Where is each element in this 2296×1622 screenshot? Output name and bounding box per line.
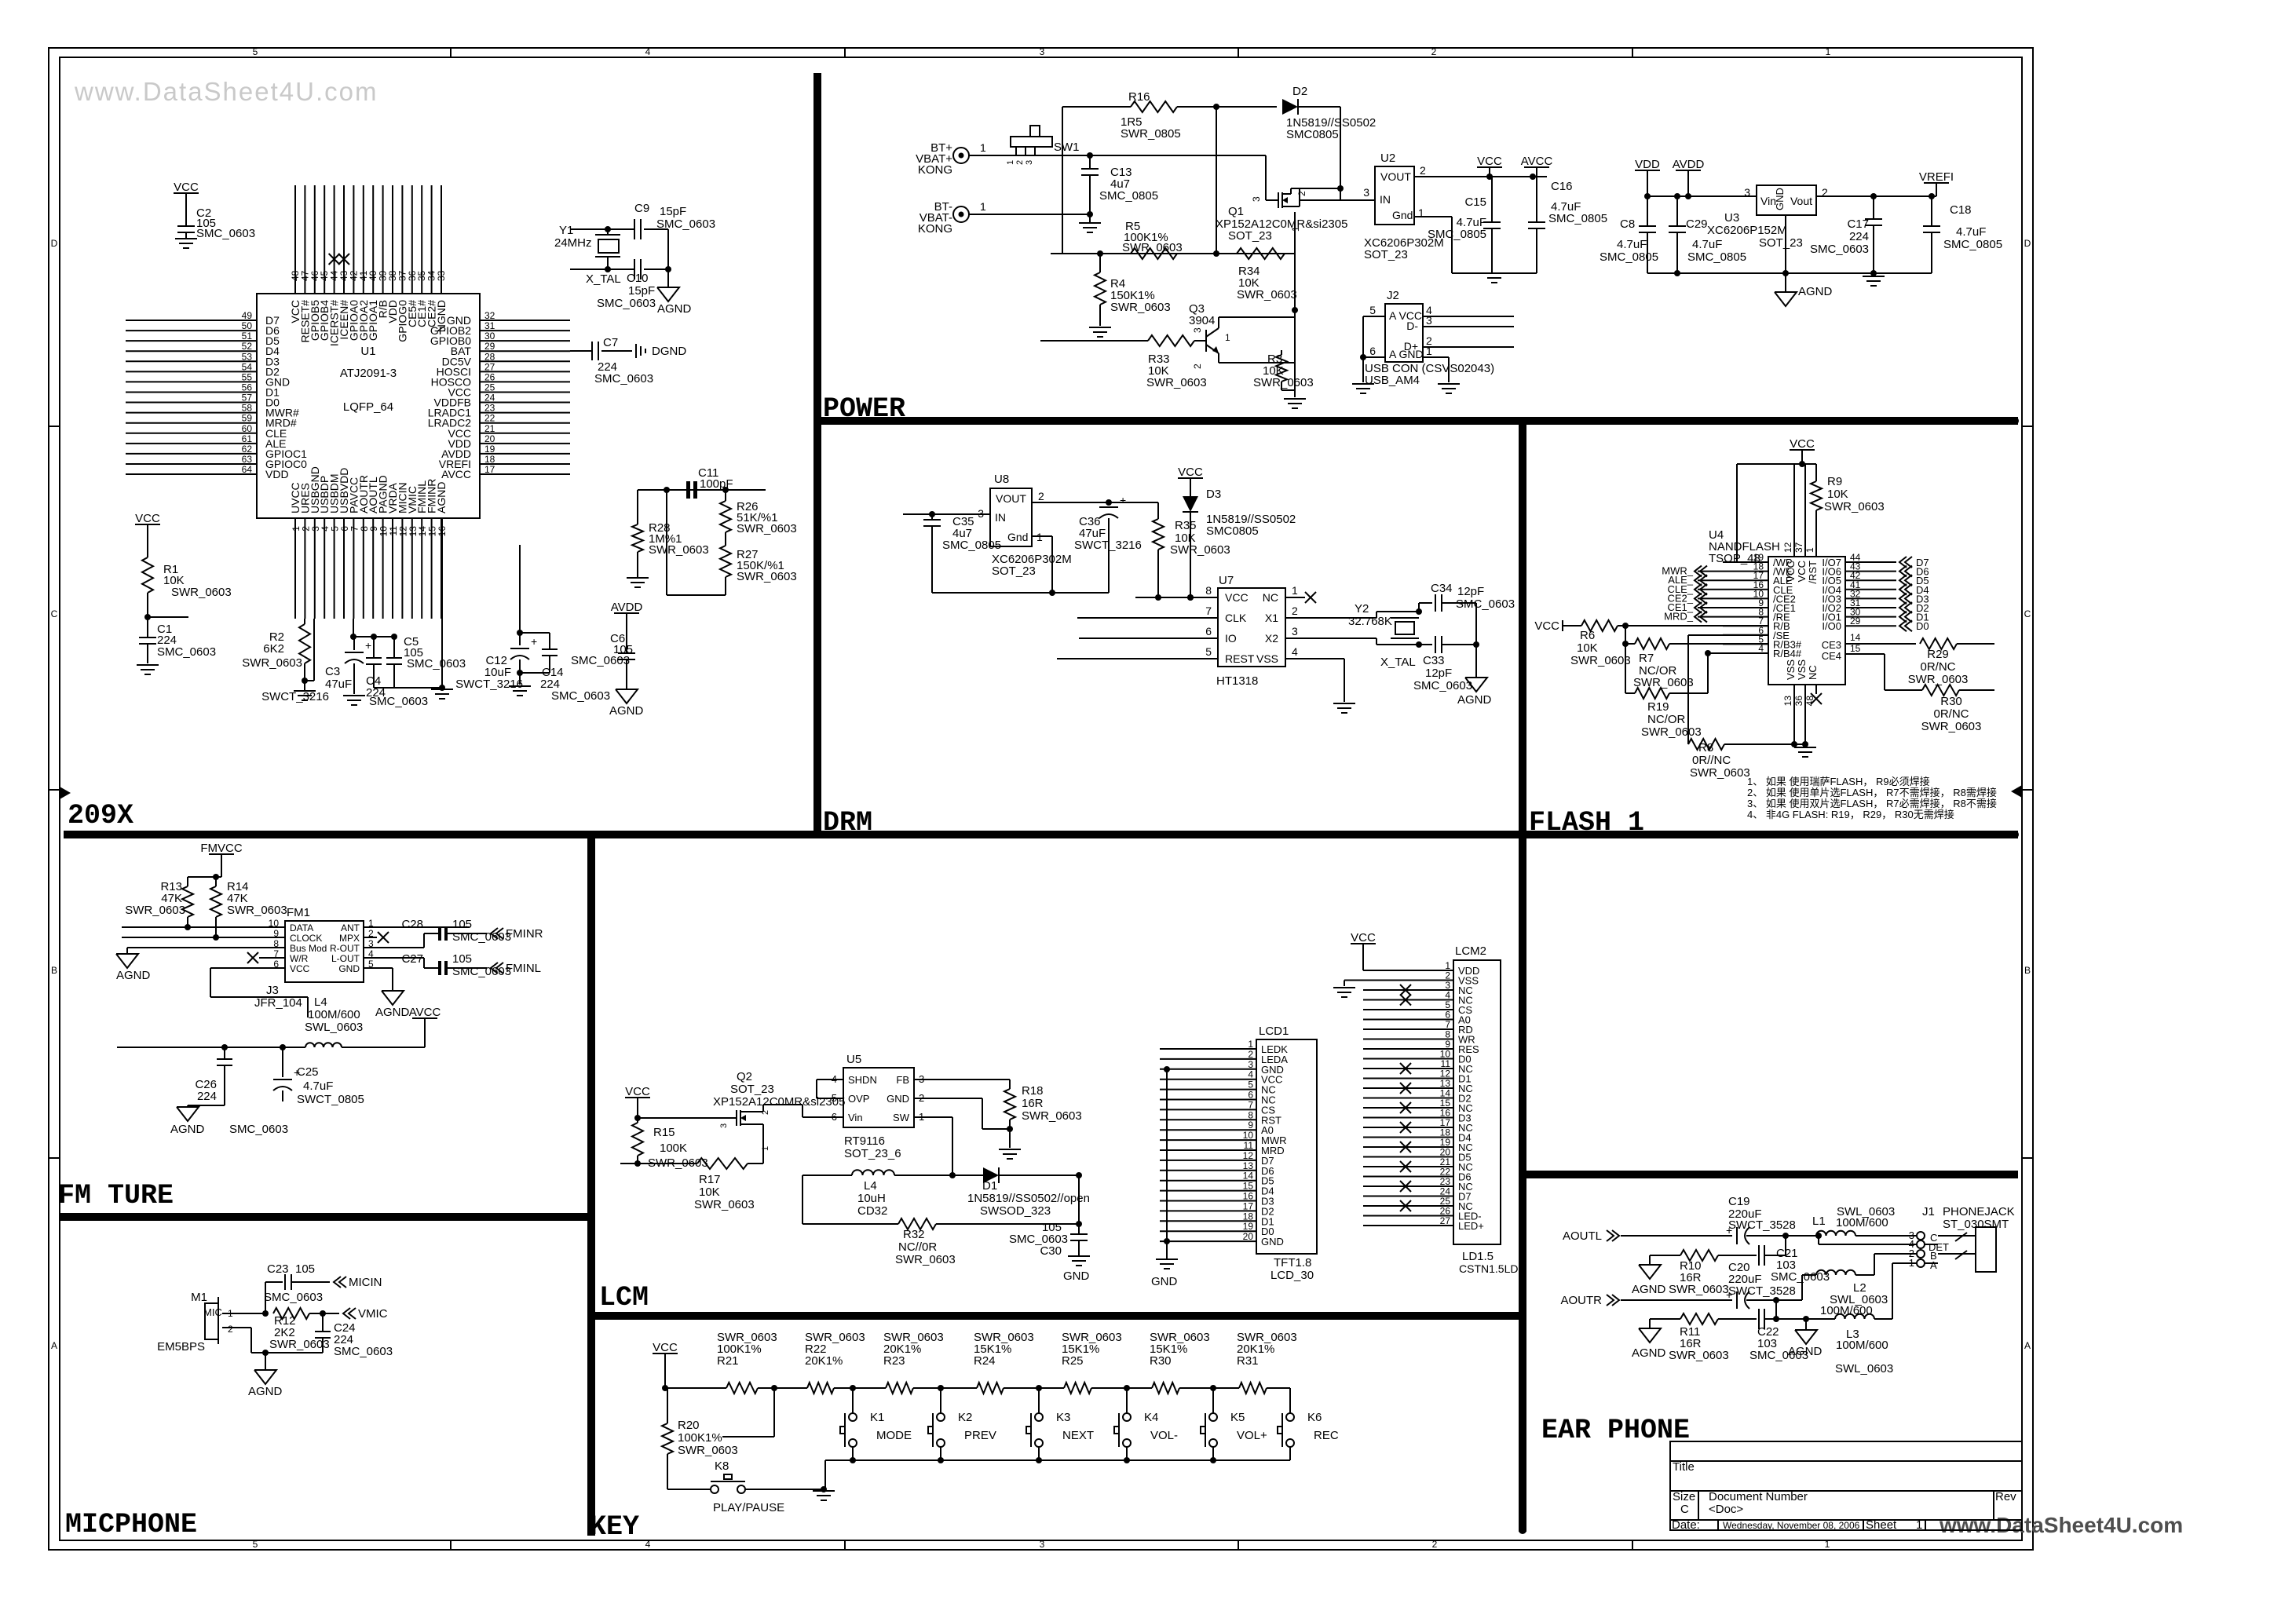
svg-text:AGND: AGND	[609, 704, 644, 718]
svg-text:VOUT: VOUT	[996, 492, 1026, 505]
svg-text:49: 49	[242, 310, 253, 321]
svg-text:105: 105	[452, 952, 472, 966]
svg-text:24MHz: 24MHz	[554, 236, 592, 250]
svg-text:209X: 209X	[68, 800, 133, 831]
wire U3 GND down	[1785, 215, 1786, 273]
title block frame	[1670, 1441, 2022, 1530]
ground under J2 right	[1438, 383, 1460, 385]
wire LCD1 gnd bus	[1166, 1069, 1168, 1259]
capacitor C10 15pF	[634, 259, 635, 279]
svg-text:D1: D1	[982, 1179, 997, 1193]
svg-text:FM1: FM1	[287, 906, 310, 919]
ground AGND FM	[126, 948, 128, 954]
resistor R31 20K1%	[1239, 1383, 1267, 1394]
ground AGND R10	[1649, 1255, 1651, 1265]
svg-text:5: 5	[253, 1539, 258, 1550]
svg-text:2: 2	[1432, 1539, 1438, 1550]
svg-text:U2: U2	[1380, 152, 1395, 165]
svg-text:2: 2	[1296, 191, 1307, 196]
svg-text:4.7uF: 4.7uF	[1617, 238, 1647, 251]
svg-text:D: D	[51, 238, 58, 249]
phone jack B wire	[1874, 1253, 1917, 1255]
svg-text:C10: C10	[627, 272, 649, 285]
resistor R4 150K1%	[1095, 272, 1106, 305]
capacitor C8 4.7uF	[1647, 196, 1648, 226]
capacitor C34 12pF	[1418, 603, 1420, 612]
wire R5 row	[1051, 253, 1295, 254]
resistor R25 15K1%	[1064, 1383, 1091, 1394]
svg-text:R9: R9	[1827, 475, 1842, 488]
svg-text:SWR_0603: SWR_0603	[1237, 288, 1297, 301]
svg-text:C25: C25	[297, 1065, 319, 1079]
resistor R15 100K	[637, 1118, 638, 1123]
svg-text:VSS: VSS	[1256, 652, 1278, 665]
wire U7 VSS to ground	[1285, 658, 1344, 659]
LCD1 pin wires	[1160, 1048, 1256, 1050]
wire R1 to C1	[147, 593, 148, 637]
svg-text:5: 5	[1205, 645, 1212, 658]
inductor L4 LCM 10uH	[803, 1174, 852, 1176]
U8 bottom rail	[932, 592, 1109, 594]
svg-text:20: 20	[1243, 1231, 1254, 1242]
svg-text:U7: U7	[1219, 574, 1234, 587]
svg-text:C: C	[2024, 608, 2031, 619]
svg-text:56: 56	[242, 382, 253, 393]
svg-text:1: 1	[980, 141, 986, 154]
resistor R22 20K1%	[807, 1383, 834, 1394]
svg-text:SWR_0603: SWR_0603	[227, 904, 287, 917]
key switch K3	[1038, 1388, 1040, 1413]
wire R16 junction down to Q1 gate net	[1216, 107, 1217, 254]
svg-text:R6: R6	[1580, 629, 1595, 642]
ground under U7 VSS	[1333, 703, 1355, 704]
svg-text:K5: K5	[1230, 1411, 1245, 1424]
svg-text:SOT_23: SOT_23	[1228, 229, 1272, 243]
svg-text:MICIN: MICIN	[349, 1276, 382, 1289]
svg-text:Q2: Q2	[737, 1070, 752, 1083]
svg-text:62: 62	[242, 444, 253, 455]
ground under C12	[509, 685, 531, 687]
IC U2 regulator	[1375, 166, 1414, 225]
svg-text:Sheet: Sheet	[1866, 1518, 1897, 1532]
svg-text:15: 15	[1243, 1181, 1254, 1192]
svg-text:VCC: VCC	[1534, 619, 1559, 633]
capacitor C17 224	[1873, 196, 1874, 219]
LCD connector LCD1	[1256, 1039, 1317, 1254]
svg-text:Title: Title	[1673, 1460, 1695, 1474]
capacitor C1 224	[139, 637, 156, 638]
capacitor C22 103	[1758, 1309, 1760, 1329]
svg-text:IO: IO	[1225, 632, 1237, 645]
svg-text:LCD_30: LCD_30	[1270, 1269, 1314, 1282]
ground under U4	[1794, 747, 1816, 748]
svg-text:LD1.5: LD1.5	[1462, 1250, 1493, 1263]
IC U3 XC6206P152M	[1757, 185, 1816, 215]
svg-text:SOT_23: SOT_23	[730, 1083, 774, 1096]
svg-text:LCM: LCM	[599, 1282, 649, 1313]
svg-text:SWR_0603: SWR_0603	[1921, 720, 1982, 733]
svg-text:5: 5	[1248, 1080, 1253, 1090]
wire C11 mid leg	[666, 490, 667, 595]
svg-text:26: 26	[484, 371, 495, 382]
ground AGND under C6	[616, 689, 638, 703]
svg-text:VCC: VCC	[1351, 931, 1376, 944]
svg-text:27: 27	[1440, 1215, 1451, 1226]
svg-text:B: B	[2024, 965, 2031, 976]
resistor R20 100K1%	[773, 1388, 775, 1437]
svg-text:NGND: NGND	[435, 300, 448, 332]
capacitor C13 4u7	[1087, 152, 1093, 159]
svg-text:SWCT_0805: SWCT_0805	[297, 1093, 364, 1106]
key switch K6	[1289, 1388, 1291, 1413]
svg-text:XC6206P152M: XC6206P152M	[1707, 224, 1787, 237]
svg-text:12: 12	[1243, 1150, 1254, 1161]
svg-text:CD32: CD32	[857, 1204, 887, 1218]
svg-text:SOT_23: SOT_23	[1364, 248, 1408, 261]
svg-text:61: 61	[242, 433, 253, 444]
ground AGND R11	[1649, 1319, 1651, 1328]
border row ticks left	[49, 426, 60, 427]
svg-text:IN: IN	[995, 511, 1006, 524]
key switch K1	[852, 1388, 854, 1413]
svg-text:GND: GND	[338, 963, 360, 974]
svg-text:C17: C17	[1847, 217, 1869, 231]
svg-text:C34: C34	[1431, 582, 1453, 595]
svg-text:SMC_0603: SMC_0603	[656, 217, 715, 231]
svg-text:D3: D3	[1206, 488, 1221, 501]
svg-text:www.DataSheet4U.com: www.DataSheet4U.com	[1939, 1513, 2183, 1537]
J2 pin wires	[1363, 316, 1385, 317]
svg-text:13: 13	[1782, 696, 1793, 707]
FM1 ANT wire	[364, 926, 470, 928]
title block column lines	[1698, 1491, 1699, 1520]
svg-text:20: 20	[484, 433, 495, 444]
FM1 GND wire to AGND	[364, 967, 393, 969]
svg-text:3: 3	[1292, 625, 1298, 637]
svg-text:29: 29	[1850, 616, 1861, 627]
svg-text:32: 32	[484, 310, 495, 321]
svg-text:K3: K3	[1056, 1411, 1070, 1424]
ground AGND crystal	[657, 287, 679, 301]
svg-text:2: 2	[1431, 46, 1437, 57]
svg-text:SMC_0603: SMC_0603	[1810, 243, 1869, 256]
svg-text:SWR_0805: SWR_0805	[1121, 127, 1181, 141]
svg-text:D0: D0	[1916, 620, 1929, 632]
ground under J2 left	[1362, 357, 1364, 382]
svg-text:105: 105	[295, 1262, 315, 1276]
svg-text:VCC: VCC	[135, 512, 160, 525]
svg-text:+: +	[365, 639, 371, 652]
transistor Q3 3904	[1040, 340, 1148, 342]
svg-text:16: 16	[1243, 1191, 1254, 1202]
wire R27 bottom	[667, 594, 726, 596]
svg-text:8: 8	[1205, 584, 1212, 597]
svg-text:AGND: AGND	[1457, 693, 1492, 707]
svg-text:1、 如果 使用瑞萨FLASH， R9必须焊接: 1、 如果 使用瑞萨FLASH， R9必须焊接	[1747, 776, 1930, 787]
svg-text:PHONEJACK: PHONEJACK	[1943, 1205, 2015, 1218]
svg-text:60: 60	[242, 423, 253, 434]
svg-text:SMC_0805: SMC_0805	[942, 539, 1001, 552]
svg-text:12: 12	[1782, 542, 1793, 553]
svg-text:X1: X1	[1265, 612, 1278, 624]
svg-text:AGND: AGND	[657, 302, 692, 316]
ground AGND L3 node	[1805, 1319, 1807, 1330]
svg-text:FMVCC: FMVCC	[200, 842, 242, 855]
resistor R27 150K	[725, 532, 726, 546]
ground DGND	[635, 344, 637, 358]
svg-text:4: 4	[1758, 643, 1764, 654]
svg-text:100M/600: 100M/600	[308, 1008, 360, 1021]
ground KEY	[813, 1490, 835, 1492]
svg-text:CSTN1.5LD: CSTN1.5LD	[1459, 1262, 1518, 1275]
svg-text:SWR_0603: SWR_0603	[1570, 654, 1631, 667]
capacitor C29 4.7uF	[1676, 196, 1678, 226]
svg-text:MIC: MIC	[203, 1306, 222, 1318]
svg-text:C16: C16	[1551, 180, 1573, 193]
svg-text:CLOCK: CLOCK	[290, 933, 322, 944]
svg-text:C7: C7	[603, 336, 618, 349]
svg-text:R29: R29	[1927, 648, 1949, 661]
svg-text:SMC_0805: SMC_0805	[1099, 189, 1158, 203]
FM1 VCC wire	[210, 968, 211, 997]
svg-text:K8: K8	[715, 1459, 729, 1473]
key switch K5	[1212, 1388, 1214, 1413]
IC U5 RT9116	[843, 1068, 914, 1127]
svg-text:SWSOD_323: SWSOD_323	[980, 1204, 1051, 1218]
svg-text:SWR_0603: SWR_0603	[649, 543, 709, 557]
svg-text:LQFP_64: LQFP_64	[343, 400, 393, 414]
U4 right pin wires to D bus tags	[1845, 561, 1896, 563]
IC U7 HT1318	[1218, 588, 1285, 667]
ground under C17	[1863, 276, 1885, 277]
resistor R11 16R	[1650, 1318, 1680, 1320]
svg-text:K6: K6	[1307, 1411, 1322, 1424]
svg-text:SMC_0805: SMC_0805	[1600, 250, 1658, 264]
svg-text:SMC_0603: SMC_0603	[452, 965, 511, 978]
svg-text:R25: R25	[1062, 1354, 1084, 1368]
ground under R28	[627, 577, 649, 579]
svg-text:SWR_0603: SWR_0603	[1633, 676, 1694, 689]
svg-text:14: 14	[1850, 632, 1861, 643]
svg-text:SWR_0603: SWR_0603	[737, 522, 797, 535]
svg-text:SWR_0603: SWR_0603	[678, 1444, 738, 1457]
svg-text:32.768K: 32.768K	[1348, 615, 1392, 628]
key switch K8 PLAY/PAUSE	[667, 1489, 711, 1490]
ground under Q3	[1294, 390, 1296, 397]
svg-text:VCC: VCC	[1785, 561, 1797, 582]
svg-text:FMINR: FMINR	[506, 927, 543, 941]
svg-text:SMC_0603: SMC_0603	[551, 689, 610, 703]
key switch K2	[940, 1388, 941, 1413]
svg-text:1: 1	[980, 200, 986, 213]
svg-text:ANT: ANT	[341, 922, 360, 933]
svg-text:0R/NC: 0R/NC	[1920, 660, 1955, 674]
wire CE4 to R30	[1845, 653, 1885, 655]
U1 left pin wires 49-64	[126, 320, 257, 321]
svg-text:VDD: VDD	[265, 468, 289, 480]
svg-text:REST: REST	[1225, 652, 1255, 665]
svg-text:50: 50	[242, 320, 253, 331]
svg-text:MODE: MODE	[876, 1429, 912, 1442]
svg-text:X2: X2	[1265, 632, 1278, 645]
transistor Q1 mosfet	[1265, 155, 1267, 200]
svg-text:C28: C28	[401, 918, 423, 931]
capacitor C35 4u7	[931, 514, 933, 520]
resistor R5 100K1%	[1131, 248, 1177, 259]
svg-text:3: 3	[1040, 46, 1045, 57]
phone jack J1 pins	[1917, 1232, 1925, 1240]
svg-text:C15: C15	[1464, 195, 1486, 209]
ground AGND mic	[254, 1370, 276, 1384]
resistor R17 10K	[620, 1163, 697, 1164]
divider EARPHONE top horizontal	[1523, 1171, 2018, 1178]
svg-text:10K: 10K	[1827, 488, 1848, 501]
svg-text:U1: U1	[360, 345, 375, 358]
svg-text:AGND: AGND	[435, 482, 448, 513]
U1 bottom pin wires 1-16	[294, 518, 296, 619]
svg-text:Y1: Y1	[559, 224, 573, 237]
FMINR tag	[491, 928, 498, 939]
svg-text:SMC_0603: SMC_0603	[157, 645, 216, 659]
divider POWER bottom horizontal	[814, 417, 2018, 425]
svg-text:RT9116: RT9116	[844, 1134, 885, 1148]
svg-text:CE3: CE3	[1822, 639, 1841, 651]
svg-text:1: 1	[1804, 547, 1815, 553]
phone jack body	[1976, 1227, 1996, 1272]
svg-text:Vin: Vin	[848, 1112, 863, 1123]
svg-text:POWER: POWER	[823, 393, 905, 425]
svg-text:22: 22	[484, 413, 495, 424]
ground under C1	[137, 664, 159, 666]
svg-text:4.7uF: 4.7uF	[303, 1080, 333, 1093]
wire M1 pin1	[222, 1313, 265, 1314]
svg-text:4: 4	[1292, 645, 1298, 658]
svg-text:3: 3	[1744, 186, 1750, 199]
svg-text:4.7uF: 4.7uF	[1692, 238, 1722, 251]
svg-text:AGND: AGND	[375, 1006, 410, 1019]
wire U2 Gnd down	[1414, 216, 1452, 217]
LCM connector LCM2	[1453, 960, 1501, 1244]
ground AGND U3	[1785, 273, 1786, 292]
U5 right wires	[914, 1079, 1010, 1080]
svg-text:VCC: VCC	[1790, 437, 1815, 451]
svg-text:3: 3	[1025, 160, 1034, 165]
svg-text:SWR_0603: SWR_0603	[737, 570, 797, 583]
resistor R32 NC//0R	[803, 1223, 898, 1225]
wire M1 pin2	[222, 1327, 251, 1328]
svg-text:SMC_0603: SMC_0603	[334, 1345, 393, 1358]
svg-text:100pF: 100pF	[700, 477, 733, 491]
resistor R24 15K1%	[977, 1383, 1004, 1394]
svg-text:OVP: OVP	[848, 1093, 869, 1105]
svg-text:SWCT_3216: SWCT_3216	[1074, 539, 1142, 552]
svg-text:L4: L4	[864, 1179, 877, 1193]
svg-text:100K: 100K	[660, 1142, 687, 1155]
wire rail to ground	[824, 1460, 826, 1489]
svg-text:1: 1	[1916, 1518, 1922, 1532]
svg-text:GND: GND	[1063, 1269, 1090, 1283]
svg-text:C8: C8	[1620, 217, 1635, 231]
svg-text:VCC: VCC	[625, 1085, 650, 1098]
capacitor C21 103	[1758, 1245, 1760, 1266]
capacitor C20 220uF polarized	[1736, 1291, 1738, 1309]
svg-text:14: 14	[1243, 1171, 1254, 1182]
svg-text:A: A	[1930, 1259, 1937, 1271]
svg-text:R35: R35	[1175, 519, 1197, 532]
svg-text:SWR_0603: SWR_0603	[125, 904, 185, 917]
capacitor C5 105	[393, 637, 395, 658]
resistor R21 100K1%	[726, 1383, 758, 1394]
svg-text:R8: R8	[1698, 741, 1713, 754]
svg-text:1: 1	[1292, 584, 1298, 597]
U3 bottom rail	[1647, 272, 1932, 274]
svg-text:VCC: VCC	[1225, 591, 1249, 604]
svg-text:EM5BPS: EM5BPS	[157, 1340, 205, 1353]
resistor R8 0R//NC	[1688, 739, 1724, 750]
svg-text:47uF: 47uF	[325, 678, 352, 691]
border column ticks bottom	[450, 1540, 452, 1550]
resistor R35 10K	[1157, 502, 1159, 519]
svg-text:R/B4#: R/B4#	[1773, 648, 1802, 659]
svg-text:AGND: AGND	[248, 1385, 283, 1398]
svg-text:SMC0805: SMC0805	[1286, 128, 1339, 141]
key resistor rail	[665, 1387, 726, 1389]
U1 top pin wires 48-33	[294, 185, 296, 294]
resistor R13 47K	[182, 886, 193, 917]
MICIN tag	[334, 1277, 341, 1288]
FM1 L-OUT wire to C27	[364, 957, 424, 959]
svg-text:11: 11	[1244, 1140, 1254, 1151]
svg-text:6K2: 6K2	[263, 642, 284, 656]
svg-text:224: 224	[1849, 230, 1869, 243]
svg-text:28: 28	[484, 351, 495, 362]
resistor R12 2K2	[273, 1308, 309, 1319]
svg-text:NC//0R: NC//0R	[898, 1240, 937, 1254]
svg-text:54: 54	[242, 361, 253, 372]
capacitor C2	[177, 225, 195, 227]
svg-text:NC: NC	[1807, 665, 1819, 680]
svg-text:+: +	[1120, 494, 1126, 506]
resistor R10 16R	[1650, 1255, 1680, 1256]
key bottom rail	[825, 1459, 1290, 1461]
svg-text:3: 3	[1248, 1059, 1253, 1070]
svg-text:10uH: 10uH	[857, 1192, 886, 1205]
svg-text:SMC_0805: SMC_0805	[1687, 250, 1746, 264]
svg-text:SMC0805: SMC0805	[1206, 524, 1259, 538]
svg-text:3: 3	[1363, 186, 1369, 199]
svg-text:0R/NC: 0R/NC	[1933, 707, 1969, 721]
svg-text:SMC_0603: SMC_0603	[407, 657, 466, 670]
svg-text:3904: 3904	[1189, 314, 1215, 327]
svg-text:SWR_0603: SWR_0603	[1824, 500, 1885, 513]
svg-text:SWR_0603: SWR_0603	[1022, 1109, 1082, 1123]
svg-text:18: 18	[484, 454, 495, 465]
svg-text:0R//NC: 0R//NC	[1692, 754, 1731, 767]
svg-text:1N5819//SS0502//open: 1N5819//SS0502//open	[967, 1192, 1090, 1205]
svg-text:5: 5	[253, 46, 258, 57]
svg-text:VMIC: VMIC	[358, 1307, 388, 1321]
svg-text:R7: R7	[1639, 652, 1654, 665]
svg-text:DATA: DATA	[290, 922, 313, 933]
svg-text:8: 8	[1248, 1109, 1253, 1120]
capacitor C3 47uF polarized	[353, 619, 354, 637]
svg-text:DRM: DRM	[823, 807, 872, 838]
svg-text:36: 36	[1793, 696, 1804, 707]
svg-text:3: 3	[1251, 196, 1262, 202]
svg-text:I/O0: I/O0	[1822, 620, 1841, 632]
svg-text:51: 51	[242, 331, 253, 342]
svg-text:SWR_0603: SWR_0603	[1669, 1283, 1729, 1296]
